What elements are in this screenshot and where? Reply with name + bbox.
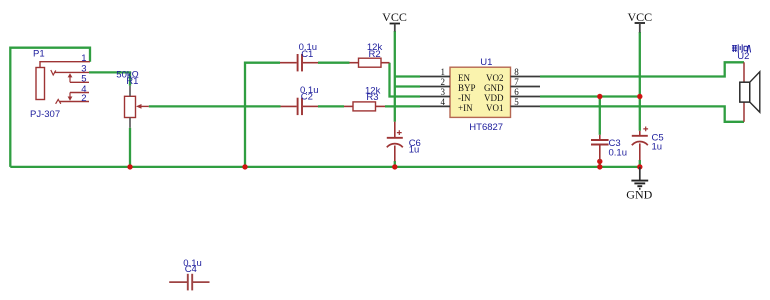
svg-text:4: 4 bbox=[441, 97, 446, 107]
svg-text:U1: U1 bbox=[480, 57, 492, 68]
capacitor C6 (polarized) bbox=[387, 122, 403, 162]
junction C3 on ground bus bbox=[597, 164, 602, 169]
capacitor C5 (polarized) bbox=[632, 127, 648, 161]
U1 value label HT6827 bbox=[469, 122, 503, 133]
P1 pin 1 lead bbox=[40, 62, 90, 68]
R2 value label 12k bbox=[367, 42, 383, 53]
svg-text:1u: 1u bbox=[652, 141, 663, 152]
C3 designator label bbox=[609, 138, 621, 149]
U1 pin 8 lead bbox=[511, 76, 541, 78]
P1 pin number 4 bbox=[81, 84, 86, 95]
U1 pin name VDD bbox=[484, 93, 504, 103]
svg-text:PJ-307: PJ-307 bbox=[30, 109, 60, 120]
wire R3 to U1 pin4 bbox=[385, 105, 420, 107]
svg-text:VCC: VCC bbox=[382, 10, 407, 24]
P1 pin 2 lead (ring contact) bbox=[56, 99, 89, 103]
U1 pin 1 lead bbox=[420, 76, 450, 78]
wire U1 pin8 VO2 to speaker top bbox=[540, 62, 744, 76]
U1 pin name VO1 bbox=[486, 103, 504, 113]
R1 wiper arrow bbox=[136, 104, 149, 109]
wire C3 bottom to ground bus bbox=[599, 161, 601, 167]
U1 pin name EN bbox=[458, 73, 470, 83]
junction C3 lead end bbox=[597, 159, 602, 164]
capacitor C3 bbox=[591, 135, 609, 161]
svg-text:VDD: VDD bbox=[484, 93, 504, 103]
capacitor C4 (unconnected) bbox=[169, 274, 209, 291]
C2 designator label bbox=[301, 92, 313, 103]
U2 designator label bbox=[737, 51, 749, 62]
C4 value label 0.1u bbox=[183, 258, 202, 269]
svg-text:R1: R1 bbox=[126, 76, 138, 87]
U2 value label 喇叭 (drawn strokes) bbox=[732, 44, 751, 52]
wire U1 pin2 BYP branch bbox=[395, 85, 420, 87]
connector P1 jack barrel bbox=[36, 68, 45, 100]
R2 designator label bbox=[369, 49, 381, 60]
capacitor C2 bbox=[281, 98, 319, 115]
junction C3 top on VDD wire bbox=[597, 94, 602, 99]
svg-text:8: 8 bbox=[514, 67, 519, 77]
P1 pin 5 lead with up arrow bbox=[68, 73, 89, 82]
R3 designator label bbox=[366, 92, 378, 103]
svg-text:1u: 1u bbox=[409, 144, 420, 155]
C3 value label 0.1u bbox=[609, 147, 628, 158]
junction R1 bottom on ground bus bbox=[127, 164, 132, 169]
wire VCC rail down to C6 bbox=[394, 31, 396, 122]
ground GND symbol bbox=[626, 167, 652, 201]
svg-text:GND: GND bbox=[626, 187, 652, 201]
U1 pin 6 lead bbox=[511, 96, 541, 98]
U1 pin 7 lead bbox=[511, 86, 541, 88]
U1 pin 3 lead bbox=[420, 96, 450, 98]
C6 value label 1u bbox=[409, 144, 420, 155]
wire VDD junction down to C3 bbox=[599, 97, 601, 135]
svg-text:VO2: VO2 bbox=[486, 73, 504, 83]
wire P1 pin3 to R1 top bbox=[89, 72, 130, 85]
C5 value label 1u bbox=[652, 141, 663, 152]
U1 pin number 4 bbox=[441, 97, 446, 107]
wire C2 to R3 bbox=[318, 105, 344, 107]
capacitor C1 bbox=[280, 54, 318, 71]
U1 pin number 5 bbox=[514, 97, 519, 107]
junction C6 bottom on ground bus bbox=[392, 164, 397, 169]
P1 pin 3 lead (tip contact) bbox=[51, 70, 89, 75]
power VCC symbol left bbox=[382, 10, 407, 32]
wire R2 to U1 pin3 bbox=[390, 63, 421, 97]
C5 designator label bbox=[652, 132, 664, 143]
svg-text:-IN: -IN bbox=[458, 93, 471, 103]
P1 pin number 2 bbox=[81, 93, 86, 104]
R1 top pin bbox=[129, 86, 131, 97]
wire VCC2 rail down to C5 bbox=[639, 32, 641, 131]
svg-text:VCC: VCC bbox=[627, 10, 652, 24]
C1 designator label bbox=[301, 49, 313, 60]
U1 pin number 1 bbox=[441, 67, 446, 77]
svg-text:HT6827: HT6827 bbox=[469, 122, 503, 133]
U1 pin 5 lead bbox=[511, 105, 541, 107]
resistor R3 bbox=[344, 102, 385, 111]
wire C5 bottom to ground bus bbox=[639, 160, 641, 167]
R1 bottom pin bbox=[129, 118, 131, 128]
C6 designator label bbox=[409, 138, 421, 149]
speaker U2 connection line bbox=[743, 62, 745, 122]
junction VCC2 on VDD wire bbox=[637, 94, 642, 99]
svg-text:U2: U2 bbox=[737, 51, 749, 62]
svg-text:2: 2 bbox=[81, 93, 86, 104]
potentiometer R1 body bbox=[125, 96, 136, 117]
wire C1 left to ground bus bbox=[245, 63, 280, 167]
U1 designator label bbox=[480, 57, 492, 68]
R1 value label 50kΩ bbox=[116, 69, 138, 80]
U1 pin 4 lead bbox=[420, 105, 450, 107]
P1 value label PJ-307 bbox=[30, 109, 60, 120]
U1 pin number 2 bbox=[441, 77, 446, 87]
svg-text:+IN: +IN bbox=[458, 103, 473, 113]
wire ground bus bbox=[10, 166, 640, 168]
junction GND on ground bus bbox=[637, 164, 642, 169]
U1 pin number 7 bbox=[514, 77, 519, 87]
U1 pin number 6 bbox=[514, 87, 519, 97]
wire U1 pin6 VDD to VCC2 bbox=[540, 95, 640, 97]
svg-text:C4: C4 bbox=[185, 264, 197, 275]
wire VCC to U1 pin1 EN bbox=[395, 75, 420, 77]
U1 pin name VO2 bbox=[486, 73, 504, 83]
svg-text:1: 1 bbox=[441, 67, 446, 77]
resistor R2 bbox=[350, 58, 390, 67]
op-amp U1 body HT6827 bbox=[450, 67, 511, 117]
svg-text:C1: C1 bbox=[301, 49, 313, 60]
U1 pin name +IN bbox=[458, 103, 473, 113]
U1 pin number 8 bbox=[514, 67, 519, 77]
U1 pin 2 lead bbox=[420, 86, 450, 88]
svg-text:5: 5 bbox=[514, 97, 519, 107]
wire P1 pin1 left loop down to ground bus bbox=[10, 48, 90, 167]
wire R1 wiper to C2 bbox=[149, 105, 281, 107]
P1 pin number 3 bbox=[81, 64, 86, 75]
C1 value label 0.1u bbox=[299, 42, 318, 53]
svg-text:R3: R3 bbox=[366, 92, 378, 103]
U1 pin number 3 bbox=[441, 87, 446, 97]
svg-text:VO1: VO1 bbox=[486, 103, 504, 113]
svg-text:P1: P1 bbox=[33, 48, 45, 59]
P1 designator label bbox=[33, 48, 45, 59]
wire C1 to R2 bbox=[318, 62, 350, 64]
wire C6 bottom to ground bus bbox=[394, 161, 396, 167]
C2 value label 0.1u bbox=[300, 85, 319, 96]
svg-text:EN: EN bbox=[458, 73, 470, 83]
U1 pin name -IN bbox=[458, 93, 471, 103]
svg-text:BYP: BYP bbox=[458, 83, 476, 93]
U1 pin name BYP bbox=[458, 83, 476, 93]
P1 pin 4 lead with down arrow bbox=[68, 93, 89, 101]
P1 pin number 1 bbox=[81, 53, 86, 64]
speaker U2 body bbox=[740, 72, 760, 113]
wire U1 pin5 VO1 to speaker bottom bbox=[540, 106, 744, 121]
svg-text:1: 1 bbox=[81, 53, 86, 64]
C4 designator label bbox=[185, 264, 197, 275]
R3 value label 12k bbox=[365, 85, 381, 96]
svg-text:2: 2 bbox=[441, 77, 446, 87]
wire R1 bottom to ground bus bbox=[129, 128, 131, 167]
P1 pin number 5 bbox=[81, 74, 86, 85]
svg-text:C2: C2 bbox=[301, 92, 313, 103]
power VCC symbol right bbox=[627, 10, 652, 33]
U1 pin name GND bbox=[484, 83, 504, 93]
R1 designator label bbox=[126, 76, 138, 87]
svg-text:0.1u: 0.1u bbox=[609, 147, 628, 158]
svg-text:GND: GND bbox=[484, 83, 504, 93]
svg-text:7: 7 bbox=[514, 77, 519, 87]
junction C1 branch on ground bus bbox=[242, 164, 247, 169]
svg-text:3: 3 bbox=[441, 87, 446, 97]
svg-text:6: 6 bbox=[514, 87, 519, 97]
svg-text:R2: R2 bbox=[369, 49, 381, 60]
